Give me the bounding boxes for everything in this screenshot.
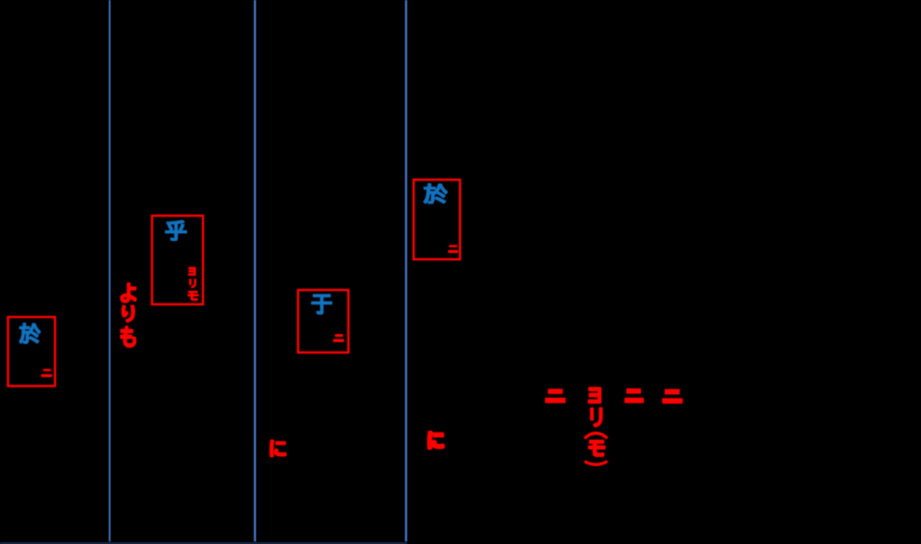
reading mark モ <box>589 441 604 456</box>
hiragana り (yorimo column) <box>122 306 134 322</box>
kaeriten box 1 (於) <box>8 317 55 386</box>
hiragana に (column 3) <box>271 440 286 456</box>
reading mark ニ (2nd) <box>624 388 644 403</box>
okurigana ヨ in box 2 <box>189 268 195 275</box>
okurigana モ in box 2 <box>188 291 198 300</box>
okurigana リ in box 2 <box>190 279 196 287</box>
kanji 於 in box 4 <box>424 184 448 204</box>
vertical open paren ︵ <box>585 433 608 438</box>
kaeriten box 4 (於) <box>414 180 460 260</box>
hiragana も (yorimo column) <box>121 327 136 347</box>
kaeriten box 2 (乎) <box>152 216 203 305</box>
reading mark ヨ <box>589 388 601 402</box>
kanji 於 in box 1 <box>19 323 40 343</box>
kanji 于 in box 3 <box>312 295 332 314</box>
kaeriten box 3 (于) <box>298 290 348 353</box>
reading mark ニ (1st) <box>545 389 566 403</box>
hiragana に (column 4) <box>429 432 444 448</box>
vertical close paren ︶ <box>585 461 608 464</box>
hiragana よ (yorimo column) <box>121 283 136 302</box>
column rule 3 <box>405 0 407 542</box>
okurigana ニ in box 3 <box>333 334 344 342</box>
bottom rule <box>0 543 407 544</box>
column rule 1 <box>109 0 111 542</box>
reading mark リ <box>591 408 602 426</box>
kanji 乎 in box 2 <box>166 221 187 241</box>
column rule 2 <box>254 0 256 542</box>
okurigana ニ in box 1 <box>41 369 52 377</box>
reading mark ニ (3rd) <box>662 389 683 404</box>
okurigana ニ in box 4 <box>448 245 458 253</box>
